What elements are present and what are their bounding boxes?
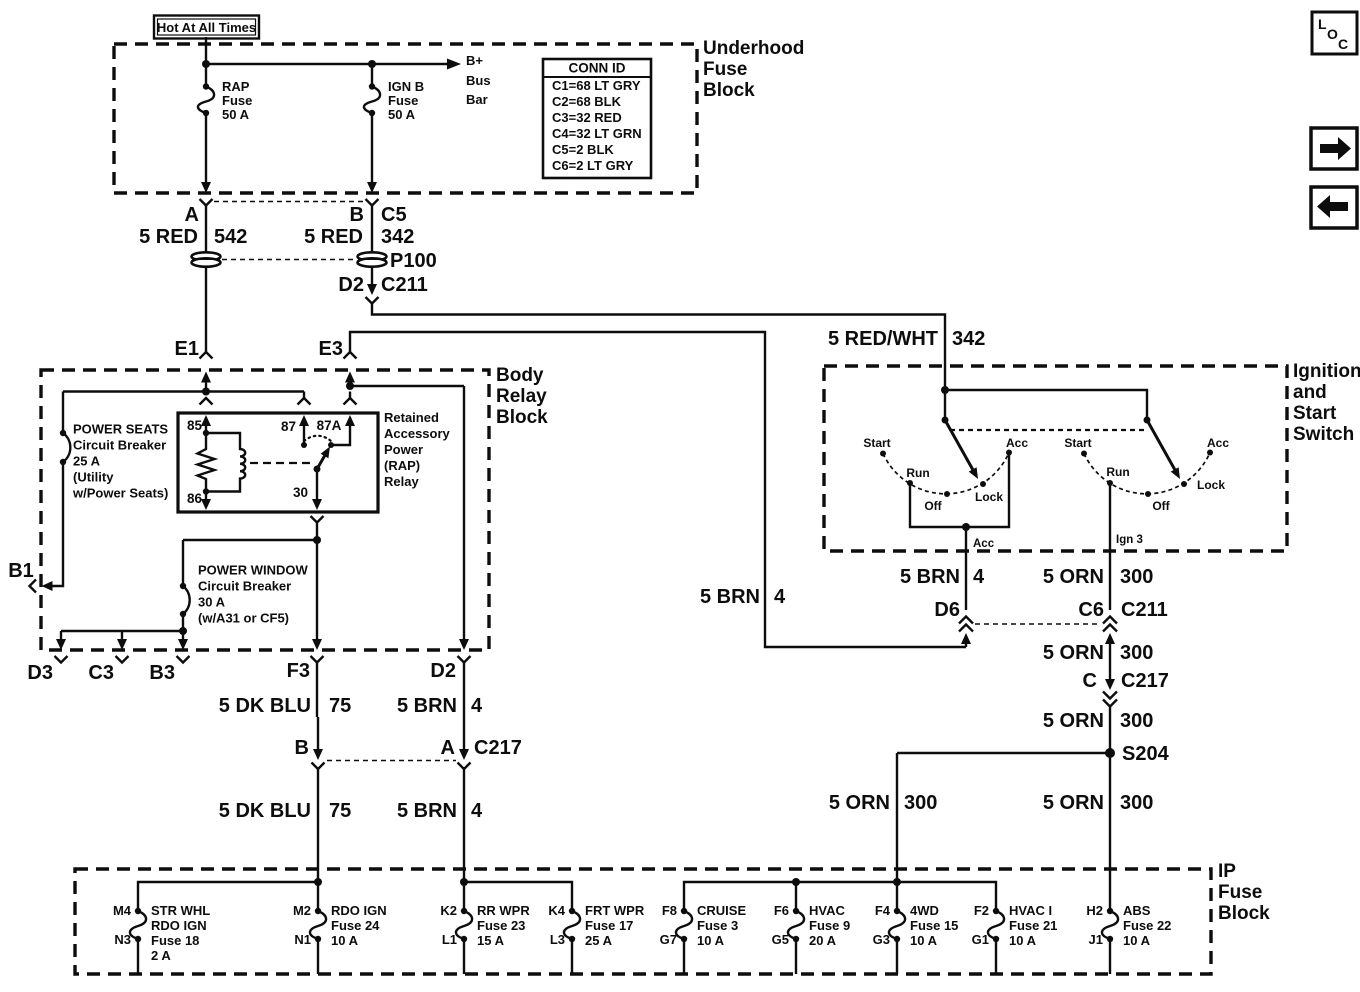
wire branch to D3/C3 (61, 630, 183, 632)
relay pin 30 arrow (312, 469, 322, 510)
svg-text:C5: C5 (381, 204, 407, 226)
fuse STR WHL RDO IGN Fuse 18 (130, 908, 146, 974)
node E1 junction (202, 388, 210, 396)
svg-text:H2: H2 (1086, 903, 1103, 918)
fuse CRUISE Fuse 3 (676, 908, 692, 974)
svg-text:B3: B3 (149, 662, 175, 684)
svg-text:86: 86 (187, 491, 203, 506)
svg-text:50 A: 50 A (222, 107, 250, 122)
inductor relay coil winding (206, 433, 245, 492)
connector B3 male arrow (178, 631, 188, 650)
wire bus fuse23-fuse17 (464, 882, 572, 911)
fuse RR WPR Fuse 23 (456, 908, 472, 974)
svg-text:50 A: 50 A (388, 107, 416, 122)
svg-text:Block: Block (703, 80, 755, 101)
svg-text:Off: Off (924, 499, 942, 513)
wire C211 D2 to ignition switch (372, 304, 945, 391)
node right Lock (1181, 481, 1187, 487)
connector relay pin 87A female (344, 398, 357, 405)
node right Run (1107, 480, 1113, 486)
svg-text:C2=68 BLK: C2=68 BLK (552, 94, 622, 109)
connector relay pin 85 female (200, 398, 213, 405)
svg-text:C1=68 LT GRY: C1=68 LT GRY (552, 78, 641, 93)
svg-text:F4: F4 (875, 903, 891, 918)
svg-text:Bus: Bus (466, 73, 491, 88)
svg-text:F2: F2 (974, 903, 989, 918)
connector C211 D6 female chevrons (959, 617, 973, 632)
svg-text:300: 300 (1120, 710, 1153, 732)
labels ignition switch (829, 361, 1360, 814)
svg-text:C217: C217 (1121, 670, 1169, 692)
svg-text:M4: M4 (113, 903, 132, 918)
node power window branch (179, 627, 187, 635)
connector C217 B male arrow (313, 717, 323, 760)
wire Acc output to D6 (965, 527, 967, 610)
svg-text:L3: L3 (550, 932, 565, 947)
wire junction to power window breaker (183, 539, 317, 541)
node ignition feed junction (941, 386, 949, 394)
svg-text:4: 4 (471, 695, 483, 717)
svg-text:Acc: Acc (973, 538, 995, 550)
svg-text:D6: D6 (934, 599, 960, 621)
svg-text:Run: Run (906, 466, 929, 480)
wire F6 drop (795, 882, 797, 911)
wire E1 branch horizontal (63, 390, 304, 392)
svg-text:5 DK BLU: 5 DK BLU (219, 695, 311, 717)
node relay contact 87 (301, 442, 307, 448)
svg-text:4: 4 (774, 586, 786, 608)
connector pin 30 female below relay (311, 516, 324, 523)
relay switch blade (317, 447, 330, 470)
svg-text:M2: M2 (293, 903, 311, 918)
svg-text:G5: G5 (772, 932, 789, 947)
wire E3 riser to D6 loop (350, 332, 966, 647)
svg-text:Fuse 23: Fuse 23 (477, 918, 525, 933)
svg-text:B+: B+ (466, 53, 483, 68)
svg-text:4WD: 4WD (910, 903, 939, 918)
svg-text:C: C (1083, 670, 1097, 692)
svg-text:5 ORN: 5 ORN (1043, 710, 1104, 732)
svg-text:Circuit Breaker: Circuit Breaker (198, 579, 291, 594)
svg-text:300: 300 (1120, 642, 1153, 664)
relay pin 87 arrow (299, 415, 309, 445)
connector B1 male arrow (42, 581, 53, 591)
svg-text:D2: D2 (430, 660, 456, 682)
svg-text:10 A: 10 A (910, 933, 938, 948)
wire S204 right branch to H2 (1109, 753, 1111, 911)
wire pin 30 to junction (316, 523, 318, 541)
wire S204 branch horizontal (897, 752, 1110, 754)
svg-text:RDO IGN: RDO IGN (331, 903, 387, 918)
grommet P100 left half (192, 252, 221, 266)
svg-text:C4=32 LT GRN: C4=32 LT GRN (552, 126, 642, 141)
svg-text:w/Power Seats): w/Power Seats) (72, 486, 168, 501)
svg-text:25 A: 25 A (585, 933, 613, 948)
svg-text:HVAC I: HVAC I (1009, 903, 1052, 918)
wire ignition feed crossbar (945, 390, 1147, 420)
wire B grommet to C211 D2 arrow (371, 267, 373, 286)
wire pin 87A stub (349, 392, 351, 399)
svg-text:Hot At All Times: Hot At All Times (157, 20, 256, 35)
svg-text:STR WHL: STR WHL (151, 903, 210, 918)
svg-text:S204: S204 (1122, 743, 1170, 765)
node bus at F6 (792, 878, 800, 886)
svg-text:(RAP): (RAP) (384, 458, 420, 473)
left-arrow nav icon (1311, 187, 1357, 228)
node bus at M2 (314, 878, 322, 886)
svg-text:CONN ID: CONN ID (569, 61, 626, 76)
svg-text:5 BRN: 5 BRN (397, 695, 457, 717)
right-arrow nav icon (1311, 128, 1357, 169)
fuse HVAC I Fuse 21 (988, 908, 1004, 974)
svg-text:B: B (350, 204, 364, 226)
connector C217 C female chevrons (1103, 692, 1117, 754)
svg-text:Bar: Bar (466, 92, 488, 107)
grommet link dashed (222, 259, 356, 261)
svg-text:POWER WINDOW: POWER WINDOW (198, 563, 308, 578)
svg-text:Start: Start (863, 436, 890, 450)
svg-text:4: 4 (471, 800, 483, 822)
relay box RAP relay (178, 413, 378, 512)
svg-text:F6: F6 (774, 903, 789, 918)
svg-text:E1: E1 (175, 338, 199, 360)
svg-text:Body: Body (496, 365, 544, 386)
wire B+ bus bar feed (206, 63, 448, 65)
connector D3 female (55, 656, 68, 663)
svg-text:K2: K2 (440, 903, 457, 918)
svg-text:Circuit Breaker: Circuit Breaker (73, 438, 166, 453)
B+ arrow (447, 59, 461, 70)
svg-text:J1: J1 (1089, 932, 1103, 947)
LOC icon box (top right) (1312, 12, 1357, 54)
relay pin 85 arrow (201, 415, 211, 433)
connector C211 D6 male arrow (961, 633, 971, 647)
node bus at F4 (893, 878, 901, 886)
svg-text:C217: C217 (474, 737, 522, 759)
svg-text:FRT WPR: FRT WPR (585, 903, 645, 918)
connector E3 male arrow (345, 372, 355, 387)
connector link B-A dashed (327, 760, 456, 762)
svg-text:87: 87 (281, 419, 296, 434)
wire RAP fuse drop (205, 64, 207, 86)
connector C211 D2 female (366, 297, 379, 304)
svg-text:30 A: 30 A (198, 595, 226, 610)
svg-text:A: A (441, 737, 455, 759)
node Acc output junction (962, 523, 970, 531)
node right Off (1145, 491, 1151, 497)
svg-text:Relay: Relay (384, 474, 419, 489)
connector C3 female (116, 656, 129, 663)
svg-text:Fuse 15: Fuse 15 (910, 918, 958, 933)
svg-text:O: O (1327, 26, 1338, 42)
svg-text:P100: P100 (390, 250, 437, 272)
connector D2 female (458, 656, 471, 717)
node left Lock (980, 481, 986, 487)
wire bus fuse3-fuse21 (684, 882, 996, 911)
left switch blade (945, 420, 978, 479)
svg-text:5 BRN: 5 BRN (700, 586, 760, 608)
wire IGN B fuse to pin B (371, 113, 373, 183)
svg-text:300: 300 (1120, 566, 1153, 588)
svg-text:10 A: 10 A (1009, 933, 1037, 948)
node left Off (944, 491, 950, 497)
svg-text:Block: Block (1218, 903, 1270, 924)
left switch position arc dashed (883, 453, 1009, 494)
grommet P100 right half (358, 252, 387, 266)
svg-text:(Utility: (Utility (73, 470, 114, 485)
connector B1 female (30, 580, 37, 593)
connector pin B female (366, 199, 379, 206)
fuse IGN B Fuse 50A (364, 83, 380, 116)
svg-text:5 ORN: 5 ORN (1043, 566, 1104, 588)
connector C217 A male arrow (459, 717, 469, 760)
svg-text:5 ORN: 5 ORN (1043, 642, 1104, 664)
node relay coil top (203, 430, 209, 436)
svg-text:N3: N3 (114, 932, 131, 947)
svg-text:A: A (185, 204, 199, 226)
svg-text:Lock: Lock (1197, 478, 1225, 492)
connector C217 B female (312, 763, 325, 912)
wire pin B down (371, 206, 373, 253)
labels top area (139, 16, 1348, 360)
relay throw arc dotted (304, 436, 331, 441)
connector C217 C male arrow (1105, 679, 1115, 690)
svg-text:5 BRN: 5 BRN (900, 566, 960, 588)
svg-text:D2: D2 (338, 274, 364, 296)
wire left Run output (910, 453, 1009, 528)
node relay coil bottom (203, 488, 209, 494)
ignition mechanical link dashed (950, 429, 1144, 431)
svg-text:N1: N1 (294, 932, 311, 947)
connector C3 male arrow (117, 631, 127, 650)
svg-text:and: and (1293, 382, 1327, 403)
svg-text:10 A: 10 A (331, 933, 359, 948)
fuse RDO IGN Fuse 24 (310, 908, 326, 974)
resistor relay coil resistance (198, 433, 215, 492)
svg-text:C5=2 BLK: C5=2 BLK (552, 142, 614, 157)
svg-text:Fuse: Fuse (222, 93, 252, 108)
fuse HVAC Fuse 9 (788, 908, 804, 974)
labels IP fuse block (113, 861, 1270, 963)
svg-text:Run: Run (1106, 465, 1129, 479)
wire from Hot At All Times into underhood block (205, 37, 207, 64)
svg-text:5 ORN: 5 ORN (829, 792, 890, 814)
relay mechanical link dashed (250, 462, 313, 464)
svg-text:Acc: Acc (1006, 436, 1028, 450)
svg-text:G7: G7 (660, 932, 677, 947)
svg-text:Off: Off (1152, 499, 1170, 513)
svg-text:C6: C6 (1078, 599, 1104, 621)
circuit breaker POWER SEATS 25A (60, 430, 71, 465)
connector B3 female (177, 656, 190, 663)
svg-text:C3=32 RED: C3=32 RED (552, 110, 622, 125)
wire IGN B fuse drop (371, 64, 373, 86)
svg-text:5 BRN: 5 BRN (397, 800, 457, 822)
connector link A-B dashed (214, 201, 364, 203)
svg-text:20 A: 20 A (809, 933, 837, 948)
connector C211 C6 male arrow (1105, 633, 1115, 680)
connector F3 male arrow (312, 639, 322, 650)
wire RAP fuse to pin A (205, 113, 207, 183)
Hot At All Times label box (154, 16, 259, 39)
svg-text:342: 342 (381, 226, 414, 248)
svg-text:5 ORN: 5 ORN (1043, 792, 1104, 814)
circuit breaker POWER WINDOW 30A drop (182, 540, 184, 586)
svg-text:Fuse 22: Fuse 22 (1123, 918, 1171, 933)
svg-text:B: B (295, 737, 309, 759)
wire POWER SEATS breaker to B1 (51, 462, 63, 586)
node junction at RAP feed (202, 60, 210, 68)
svg-text:CRUISE: CRUISE (697, 903, 746, 918)
fuse FRT WPR Fuse 17 (564, 908, 580, 974)
svg-text:75: 75 (329, 695, 351, 717)
fuse RAP Fuse 50A (198, 83, 214, 116)
svg-text:Relay: Relay (496, 386, 547, 407)
right switch blade (1147, 420, 1180, 479)
node left Start (880, 451, 886, 457)
connector relay pin 87 female (298, 398, 311, 405)
wire pin A down (205, 206, 207, 253)
svg-text:C6=2 LT GRY: C6=2 LT GRY (552, 158, 634, 173)
svg-text:RAP: RAP (222, 79, 250, 94)
svg-text:300: 300 (1120, 792, 1153, 814)
svg-text:Underhood: Underhood (703, 38, 804, 59)
svg-text:Fuse 21: Fuse 21 (1009, 918, 1057, 933)
svg-text:Lock: Lock (975, 490, 1003, 504)
fuse ABS Fuse 22 (1102, 908, 1118, 974)
fuse 4WD Fuse 15 (889, 908, 905, 974)
node left Run (907, 480, 913, 486)
connector link D6-C6 dashed (975, 623, 1100, 625)
Ignition and Start Switch dashed border (824, 366, 1287, 551)
svg-text:C211: C211 (1121, 599, 1168, 621)
relay pin 87A arrow (331, 415, 355, 445)
wire pin 87 stub (303, 392, 305, 399)
svg-text:HVAC: HVAC (809, 903, 845, 918)
svg-text:D3: D3 (27, 662, 53, 684)
connector E1 female (200, 352, 213, 359)
node right switch pivot (1144, 417, 1151, 424)
node E3 junction (346, 382, 354, 390)
svg-text:300: 300 (904, 792, 937, 814)
connector F3 female (311, 656, 324, 717)
Body Relay Block dashed border (41, 370, 489, 650)
svg-text:Start: Start (1293, 403, 1337, 424)
node bus at K2 (460, 878, 468, 886)
svg-text:C: C (1338, 36, 1348, 52)
svg-text:Switch: Switch (1293, 424, 1354, 445)
wire A grommet to E1 (205, 267, 207, 352)
svg-text:Retained: Retained (384, 410, 439, 425)
connector C211 C6 female chevrons (1103, 617, 1117, 632)
connector E3 female (344, 352, 357, 359)
wire left pivot stub (944, 390, 946, 420)
svg-text:10 A: 10 A (1123, 933, 1151, 948)
connector D2 male arrow (459, 639, 469, 650)
svg-text:IGN B: IGN B (388, 79, 424, 94)
wire junction to F3 (316, 540, 318, 640)
svg-text:Fuse 18: Fuse 18 (151, 933, 199, 948)
svg-text:4: 4 (973, 566, 985, 588)
svg-text:G3: G3 (873, 932, 890, 947)
CONN ID table (543, 59, 651, 178)
svg-text:E3: E3 (319, 338, 343, 360)
svg-text:Ign 3: Ign 3 (1116, 534, 1143, 546)
IP Fuse Block dashed border (75, 869, 1211, 974)
svg-text:Ignition: Ignition (1293, 361, 1360, 382)
svg-text:15 A: 15 A (477, 933, 505, 948)
circuit breaker POWER SEATS 25A drop (62, 392, 64, 434)
svg-text:Fuse 3: Fuse 3 (697, 918, 738, 933)
node relay contact 87A (328, 442, 334, 448)
svg-text:Fuse: Fuse (1218, 882, 1262, 903)
svg-text:L1: L1 (442, 932, 457, 947)
right switch position arc dashed (1084, 453, 1210, 494)
connector D3 male arrow (56, 631, 66, 650)
node pin30/power window junction (313, 536, 321, 544)
relay pin 86 arrow (201, 492, 211, 511)
connector pin A female (200, 199, 213, 206)
svg-text:87A: 87A (317, 418, 342, 433)
svg-text:RR WPR: RR WPR (477, 903, 530, 918)
connector E1 male arrow (201, 372, 211, 392)
wire bus fuse18-fuse24 (138, 882, 318, 911)
svg-text:RDO IGN: RDO IGN (151, 918, 207, 933)
svg-text:542: 542 (214, 226, 247, 248)
svg-text:Start: Start (1064, 436, 1091, 450)
svg-text:L: L (1318, 16, 1327, 32)
Underhood Fuse Block dashed border (114, 44, 697, 193)
svg-text:5 RED/WHT: 5 RED/WHT (828, 328, 938, 350)
node splice S204 (1105, 748, 1115, 758)
node right Acc (1207, 450, 1213, 456)
node right Start (1081, 451, 1087, 457)
svg-text:Fuse 24: Fuse 24 (331, 918, 380, 933)
node junction at IGN B feed (368, 60, 376, 68)
wire S204 left branch to F4 (896, 753, 898, 911)
connector C217 A female (458, 763, 471, 912)
svg-text:Fuse 9: Fuse 9 (809, 918, 850, 933)
svg-text:10 A: 10 A (697, 933, 725, 948)
svg-text:B1: B1 (8, 560, 34, 582)
labels body relay block (8, 365, 786, 822)
svg-text:POWER SEATS: POWER SEATS (73, 422, 168, 437)
svg-text:Acc: Acc (1207, 436, 1229, 450)
svg-text:(w/A31 or CF5): (w/A31 or CF5) (198, 611, 289, 626)
wire power window breaker to B3 (182, 614, 184, 631)
svg-text:85: 85 (187, 418, 203, 433)
svg-text:F8: F8 (662, 903, 677, 918)
wire E3 branch horizontal to D2 drop (350, 385, 464, 387)
svg-text:Accessory: Accessory (384, 426, 451, 441)
svg-text:Power: Power (384, 442, 423, 457)
svg-text:Fuse 17: Fuse 17 (585, 918, 633, 933)
svg-text:342: 342 (952, 328, 985, 350)
node relay pivot 30 (314, 466, 321, 473)
wire D2 drop inside body relay block (463, 386, 465, 640)
svg-text:5 DK BLU: 5 DK BLU (219, 800, 311, 822)
wire right Run output to C6 (1109, 483, 1111, 610)
svg-text:G1: G1 (972, 932, 989, 947)
svg-text:75: 75 (329, 800, 351, 822)
svg-text:Fuse: Fuse (703, 59, 747, 80)
svg-text:2 A: 2 A (151, 948, 171, 963)
svg-text:F3: F3 (287, 660, 310, 682)
node left Acc (1006, 450, 1012, 456)
svg-text:30: 30 (293, 485, 308, 500)
circuit breaker POWER WINDOW 30A (180, 583, 190, 617)
node left switch pivot (942, 417, 949, 424)
